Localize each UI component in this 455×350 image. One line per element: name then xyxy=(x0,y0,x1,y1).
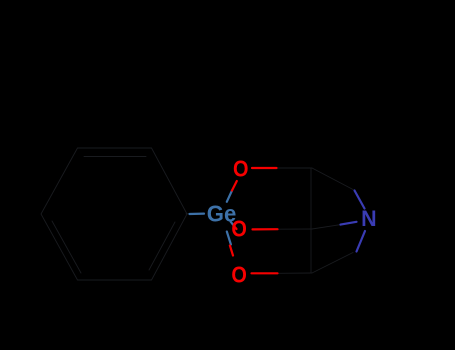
svg-text:O: O xyxy=(231,216,247,242)
svg-text:O: O xyxy=(231,262,247,288)
svg-text:N: N xyxy=(361,206,377,231)
svg-text:O: O xyxy=(233,156,249,182)
